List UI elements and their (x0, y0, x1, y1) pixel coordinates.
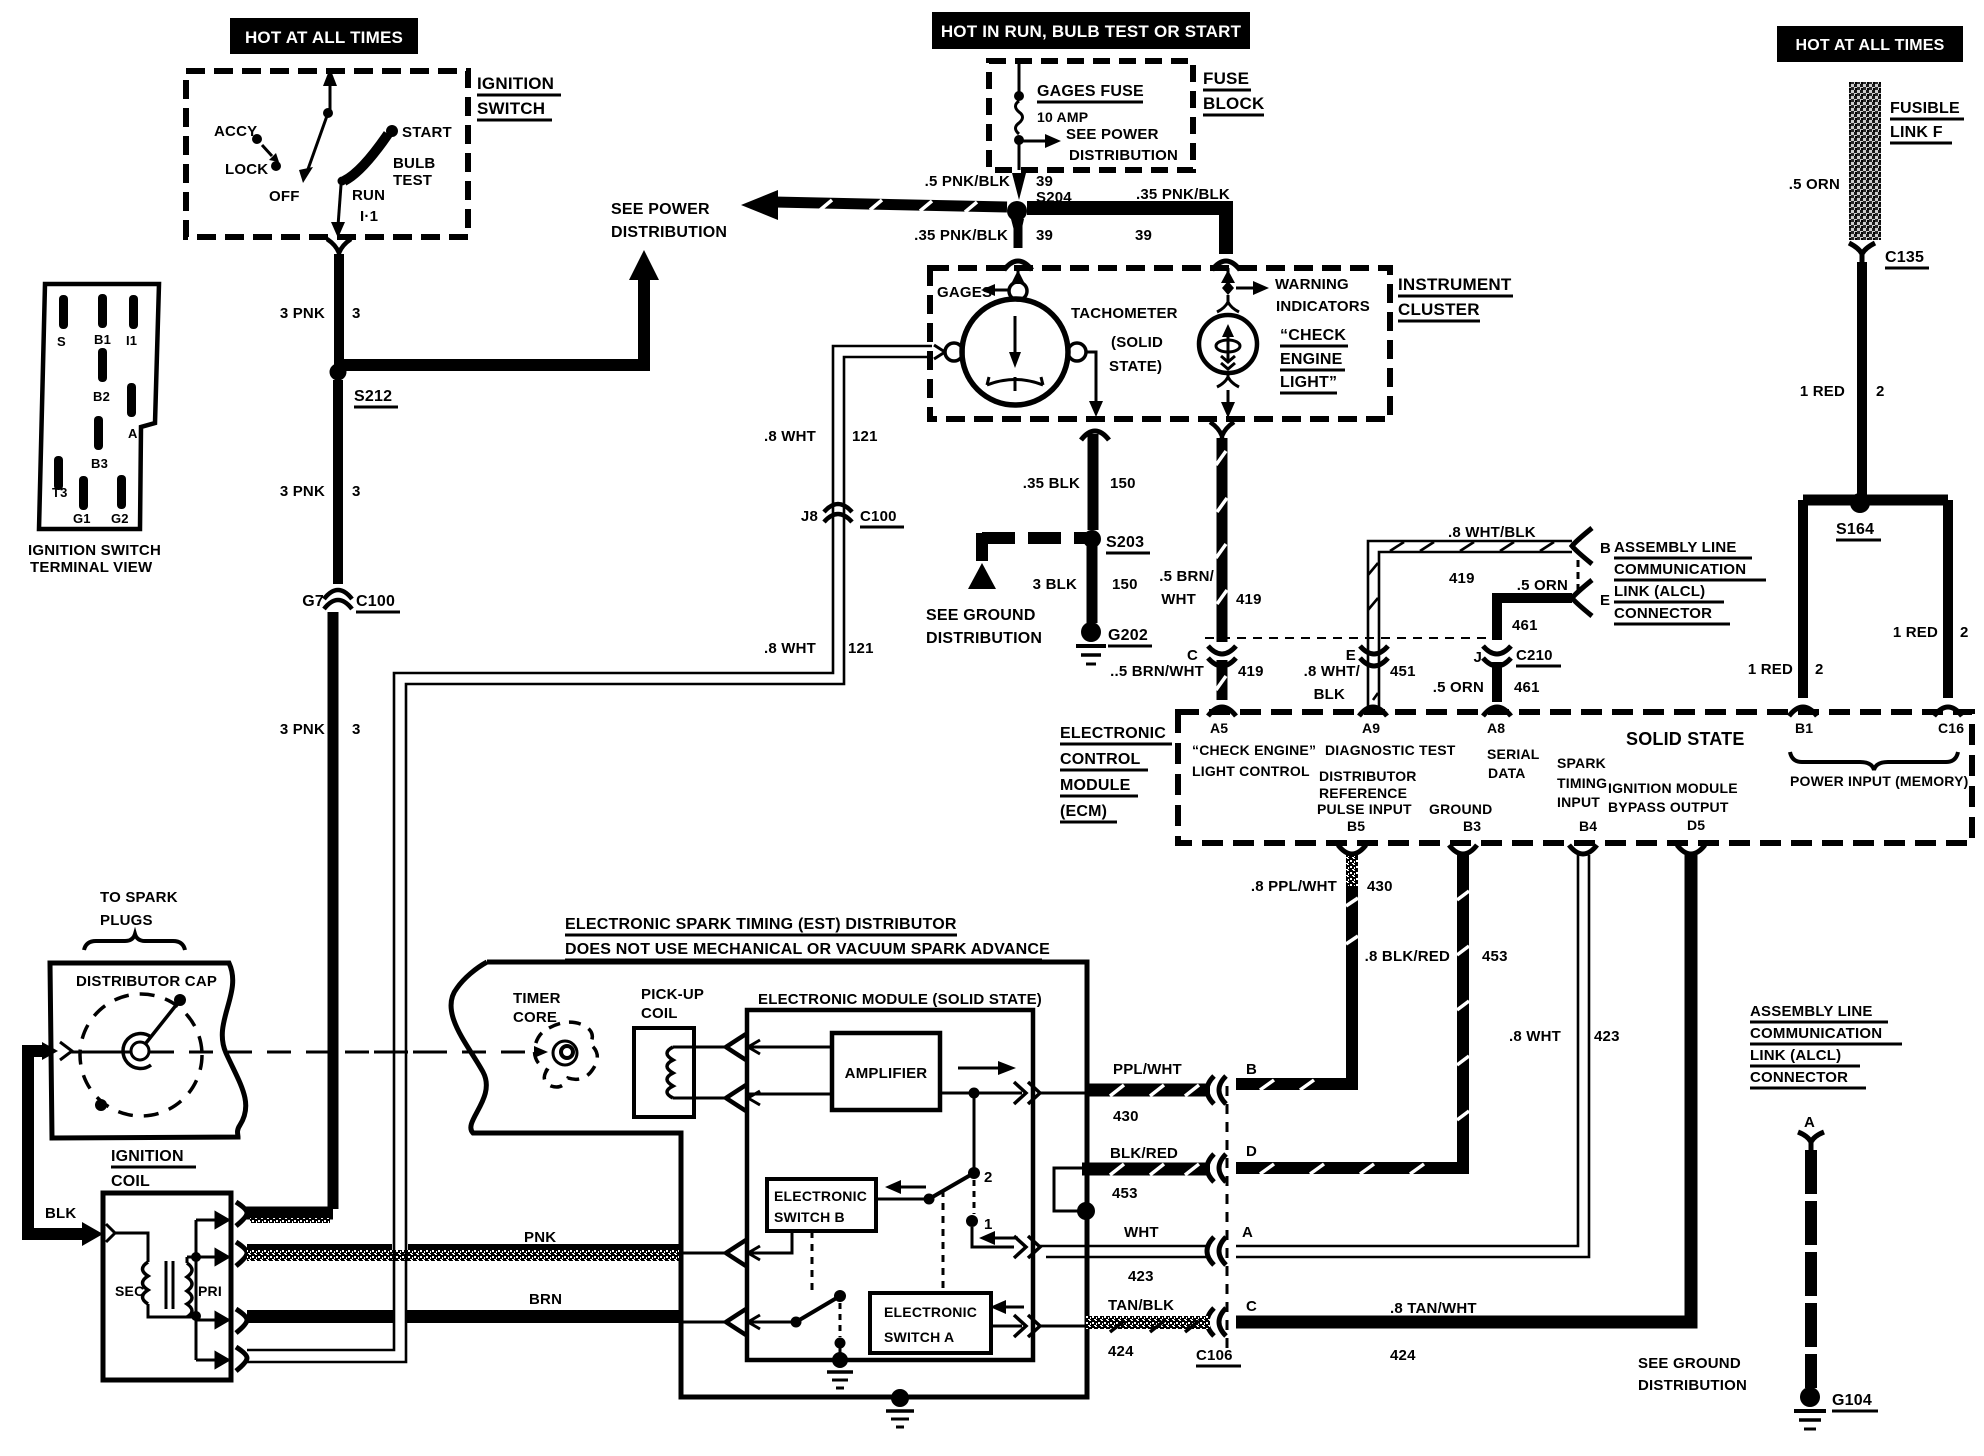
svg-text:.8 BLK/RED: .8 BLK/RED (1365, 948, 1450, 965)
svg-text:423: 423 (1594, 1028, 1620, 1045)
connector C210 pin C (1187, 646, 1236, 666)
wire WHT 423 module to connector A (1040, 1224, 1210, 1285)
svg-text:B: B (1246, 1061, 1257, 1078)
svg-text:C100: C100 (356, 593, 395, 610)
distributor cap (50, 963, 246, 1138)
module output arrows (EST bypass WHT) (1014, 1236, 1040, 1258)
wire 1 RED 2 C135 to S164 (1800, 262, 1885, 498)
svg-text:I1: I1 (126, 333, 137, 348)
svg-text:121: 121 (848, 640, 874, 657)
connector C106 pin D (1207, 1143, 1257, 1182)
connector B (ALCL) (1572, 528, 1611, 564)
svg-text:DISTRIBUTION: DISTRIBUTION (611, 224, 727, 241)
svg-text:WHT: WHT (1161, 591, 1196, 608)
to spark plugs label (84, 889, 185, 950)
svg-text:SEE GROUND: SEE GROUND (1638, 1355, 1741, 1372)
ground at EST housing bottom (886, 1389, 914, 1427)
svg-text:423: 423 (1128, 1268, 1154, 1285)
svg-text:.35 PNK/BLK: .35 PNK/BLK (1136, 186, 1230, 203)
svg-text:HOT AT ALL TIMES: HOT AT ALL TIMES (1796, 37, 1945, 54)
wire arrow to SEE POWER DISTRIBUTION (left) (741, 190, 1007, 220)
inline connector C106 dashed line (1226, 1086, 1229, 1352)
tachometer (934, 268, 1178, 417)
svg-text:B3: B3 (1463, 818, 1481, 834)
ECM box (1060, 712, 1972, 843)
svg-text:S212: S212 (354, 388, 392, 405)
wire .5 BRN/WHT 419 (hatched) cluster to C210 (1159, 438, 1261, 642)
svg-text:B1: B1 (1795, 720, 1813, 736)
svg-text:E: E (1600, 592, 1610, 609)
svg-text:.8 WHT/: .8 WHT/ (1304, 663, 1361, 680)
svg-text:D5: D5 (1687, 817, 1705, 833)
gages fuse (1014, 64, 1178, 170)
svg-text:419: 419 (1449, 570, 1475, 587)
svg-text:CONNECTOR: CONNECTOR (1750, 1069, 1848, 1086)
coil input chevron (106, 1224, 115, 1242)
svg-text:.8 TAN/WHT: .8 TAN/WHT (1390, 1300, 1477, 1317)
wire .5 PNK/BLK fuse to S204 (925, 173, 1073, 206)
svg-text:GAGES: GAGES (937, 284, 992, 301)
svg-text:SERIAL: SERIAL (1487, 746, 1540, 762)
inline connector C210 line (1205, 637, 1492, 639)
svg-text:419: 419 (1238, 663, 1264, 680)
connector ECM B4 (1569, 845, 1597, 854)
switch A contact (747, 1290, 846, 1358)
splice S212 (330, 364, 399, 408)
wire PPL/WHT 430 module to connector B (1040, 1061, 1210, 1125)
svg-text:TO SPARK: TO SPARK (100, 889, 178, 906)
svg-text:.8 PPL/WHT: .8 PPL/WHT (1251, 878, 1337, 895)
coil terminal connectors (236, 1202, 247, 1371)
svg-text:.35 PNK/BLK: .35 PNK/BLK (914, 227, 1008, 244)
svg-text:DISTRIBUTOR CAP: DISTRIBUTOR CAP (76, 973, 217, 990)
svg-text:1 RED: 1 RED (1800, 383, 1845, 400)
svg-text:430: 430 (1113, 1108, 1139, 1125)
svg-text:SEC: SEC (115, 1283, 144, 1299)
svg-text:PPL/WHT: PPL/WHT (1113, 1061, 1182, 1078)
svg-text:PICK-UP: PICK-UP (641, 986, 704, 1003)
svg-text:C: C (1246, 1298, 1257, 1315)
svg-text:INPUT: INPUT (1557, 794, 1600, 810)
connector C106 pin B (1207, 1061, 1257, 1104)
svg-text:.8 WHT/BLK: .8 WHT/BLK (1448, 524, 1536, 541)
splice S203 (1083, 530, 1150, 553)
connector below ignition switch (327, 239, 351, 261)
coil terminal arrows (196, 1213, 228, 1367)
svg-text:COMMUNICATION: COMMUNICATION (1614, 561, 1746, 578)
splice S204 (1007, 201, 1027, 221)
svg-text:T3: T3 (52, 485, 68, 500)
electronic switch B (767, 1179, 876, 1231)
ECM pin labels (1192, 720, 1968, 834)
svg-text:S164: S164 (1836, 521, 1874, 538)
svg-text:DISTRIBUTOR: DISTRIBUTOR (1319, 768, 1417, 784)
ground G104 (1794, 1387, 1878, 1429)
svg-text:HOT AT ALL TIMES: HOT AT ALL TIMES (245, 28, 403, 47)
connector ECM B3 (1449, 845, 1477, 854)
wire .8 WHT/BLK labels near E (1304, 646, 1416, 703)
wire .5 ORN 461 ALCL E to C210 (1497, 577, 1572, 640)
svg-text:.8 WHT: .8 WHT (764, 428, 816, 445)
connector A (ALCL bottom) (1798, 1132, 1824, 1152)
switch contact 2 (876, 1098, 993, 1205)
dashed wire ALCL A to G104 (1805, 1150, 1817, 1388)
mechanical link dashed line over wire crossing (374, 1051, 432, 1054)
svg-text:DISTRIBUTION: DISTRIBUTION (1638, 1377, 1747, 1394)
svg-text:LINK (ALCL): LINK (ALCL) (1614, 583, 1705, 600)
svg-text:TAN/BLK: TAN/BLK (1108, 1297, 1174, 1314)
svg-text:SEE POWER: SEE POWER (611, 201, 710, 218)
svg-text:3 PNK: 3 PNK (280, 721, 325, 738)
wire 3 PNK ignition switch to S212 (280, 254, 361, 366)
svg-text:CORE: CORE (513, 1009, 557, 1026)
splice S164 (1803, 493, 1948, 540)
svg-text:C106: C106 (1196, 1347, 1233, 1364)
electronic module box (747, 991, 1042, 1360)
svg-text:BLK: BLK (45, 1205, 76, 1222)
svg-text:C100: C100 (860, 508, 897, 525)
svg-text:1 RED: 1 RED (1748, 661, 1793, 678)
svg-text:COIL: COIL (111, 1173, 150, 1190)
svg-text:BYPASS OUTPUT: BYPASS OUTPUT (1608, 799, 1729, 815)
svg-text:GAGES FUSE: GAGES FUSE (1037, 83, 1144, 100)
svg-text:A: A (128, 426, 138, 441)
svg-text:.35 BLK: .35 BLK (1023, 475, 1080, 492)
svg-text:SWITCH B: SWITCH B (774, 1209, 845, 1225)
svg-text:3 PNK: 3 PNK (280, 483, 325, 500)
svg-text:430: 430 (1367, 878, 1393, 895)
wire .35 PNK/BLK S204 to warning indicators (1027, 186, 1233, 254)
module output arrows (TAN/BLK) (1014, 1315, 1040, 1337)
svg-text:ASSEMBLY LINE: ASSEMBLY LINE (1614, 539, 1737, 556)
power label HOT IN RUN, BULB TEST OR START (932, 12, 1250, 49)
svg-text:SEE GROUND: SEE GROUND (926, 607, 1036, 624)
svg-text:1 RED: 1 RED (1893, 624, 1938, 641)
svg-text:WHT: WHT (1124, 1224, 1159, 1241)
svg-text:G7: G7 (302, 593, 324, 610)
svg-text:SPARK: SPARK (1557, 755, 1606, 771)
svg-text:BLK: BLK (1314, 686, 1345, 703)
svg-text:PNK: PNK (524, 1229, 556, 1246)
svg-text:3: 3 (352, 305, 361, 322)
svg-text:ELECTRONIC: ELECTRONIC (774, 1188, 867, 1204)
svg-text:1: 1 (984, 1216, 993, 1233)
dashed control line switch A (942, 1190, 945, 1292)
svg-text:IGNITION SWITCH: IGNITION SWITCH (28, 542, 161, 559)
wire 3 PNK C100 down to ignition coil (246, 612, 361, 1223)
dashed link B to E (1577, 560, 1580, 590)
svg-text:B4: B4 (1579, 818, 1597, 834)
svg-text:3 PNK: 3 PNK (280, 305, 325, 322)
wire .5 ORN 461 C210 to ECM A8 (1433, 662, 1540, 702)
svg-text:GROUND: GROUND (1429, 801, 1492, 817)
connector C106 pin C (1196, 1298, 1257, 1366)
svg-text:CONNECTOR: CONNECTOR (1614, 605, 1712, 622)
switch contact 1 (966, 1180, 1018, 1247)
svg-text:I·1: I·1 (360, 208, 378, 225)
svg-text:SWITCH: SWITCH (477, 99, 545, 118)
svg-text:39: 39 (1036, 173, 1053, 190)
svg-text:PRI: PRI (198, 1283, 222, 1299)
resistor stub and BLK/RED 453 wire (1054, 1145, 1210, 1220)
svg-text:DOES NOT USE MECHANICAL OR VAC: DOES NOT USE MECHANICAL OR VACUUM SPARK … (565, 941, 1050, 958)
ALCL label (top) (1614, 539, 1766, 624)
wire .8 BLK/RED 453 ECM B3 to connector D (1236, 855, 1508, 1174)
svg-text:2: 2 (1960, 624, 1969, 641)
svg-text:START: START (402, 124, 452, 141)
svg-text:461: 461 (1512, 617, 1538, 634)
svg-text:453: 453 (1482, 948, 1508, 965)
svg-text:LOCK: LOCK (225, 161, 268, 178)
svg-text:IGNITION MODULE: IGNITION MODULE (1608, 780, 1738, 796)
timer core (513, 990, 597, 1087)
svg-text:2: 2 (1876, 383, 1885, 400)
svg-text:.5 ORN: .5 ORN (1789, 176, 1840, 193)
svg-text:B2: B2 (93, 389, 110, 404)
wire 1 RED 2 to ECM B1 (1748, 500, 1824, 698)
connector ECM B5 (1338, 845, 1366, 854)
ALCL label (bottom right) (1750, 1003, 1902, 1131)
fuse block box (989, 61, 1265, 170)
svg-text:424: 424 (1390, 1347, 1416, 1364)
svg-text:.5 BRN/: .5 BRN/ (1159, 568, 1214, 585)
wire S212 branch to SEE POWER DISTRIBUTION (344, 201, 727, 365)
svg-text:BLOCK: BLOCK (1203, 94, 1265, 113)
svg-text:INDICATORS: INDICATORS (1276, 298, 1370, 315)
svg-text:BLK/RED: BLK/RED (1110, 1145, 1178, 1162)
svg-text:2: 2 (1815, 661, 1824, 678)
svg-text:SOLID STATE: SOLID STATE (1626, 729, 1745, 749)
svg-text:G104: G104 (1832, 1392, 1872, 1409)
svg-text:.5 ORN: .5 ORN (1433, 679, 1484, 696)
svg-text:TACHOMETER: TACHOMETER (1071, 305, 1178, 322)
svg-text:TERMINAL VIEW: TERMINAL VIEW (30, 559, 153, 576)
svg-text:FUSIBLE: FUSIBLE (1890, 100, 1960, 117)
dashed control line switch B (811, 1231, 814, 1292)
svg-text:451: 451 (1390, 663, 1416, 680)
connector E (ALCL) (1572, 580, 1610, 616)
svg-text:461: 461 (1514, 679, 1540, 696)
connector C100 (J8) (801, 504, 904, 527)
wire .8 WHT/BLK 451 ALCL B to ECM A9 (1368, 524, 1572, 712)
svg-text:(ECM): (ECM) (1060, 803, 1107, 820)
svg-text:419: 419 (1236, 591, 1262, 608)
svg-text:POWER INPUT (MEMORY): POWER INPUT (MEMORY) (1790, 773, 1968, 789)
wire .35 BLK 150 (1023, 434, 1136, 530)
instrument cluster box (930, 268, 1513, 419)
svg-text:3 BLK: 3 BLK (1033, 576, 1077, 593)
svg-text:CONTROL: CONTROL (1060, 751, 1141, 768)
module output arrows (EST reference) (1014, 1082, 1040, 1104)
svg-text:.8 WHT: .8 WHT (764, 640, 816, 657)
svg-text:453: 453 (1112, 1185, 1138, 1202)
svg-text:DIAGNOSTIC TEST: DIAGNOSTIC TEST (1325, 742, 1456, 758)
svg-text:ACCY: ACCY (214, 123, 257, 140)
wire BLK distributor cap to coil (28, 1042, 103, 1246)
svg-text:3: 3 (352, 483, 361, 500)
wire .8 WHT 121 tachometer to coil (247, 346, 932, 1362)
see ground distribution (bottom right) (1638, 1355, 1747, 1394)
svg-text:TIMING: TIMING (1557, 775, 1607, 791)
svg-text:S203: S203 (1106, 534, 1144, 551)
ignition switch contacts (214, 68, 452, 238)
svg-text:A8: A8 (1487, 720, 1505, 736)
svg-text:G202: G202 (1108, 627, 1148, 644)
wire 1 RED 2 to ECM C16 (1893, 500, 1969, 698)
ground at module bottom (827, 1352, 853, 1388)
svg-text:DISTRIBUTION: DISTRIBUTION (926, 630, 1042, 647)
svg-text:C16: C16 (1938, 720, 1964, 736)
svg-text:DATA: DATA (1488, 765, 1526, 781)
svg-text:STATE): STATE) (1109, 358, 1162, 375)
svg-text:A: A (1804, 1114, 1815, 1131)
svg-text:E: E (1346, 647, 1356, 664)
wire .5 BRN/WHT 419 C210 to ECM A5 (1110, 660, 1264, 700)
svg-text:PLUGS: PLUGS (100, 912, 153, 929)
svg-text:“CHECK ENGINE”: “CHECK ENGINE” (1192, 742, 1316, 758)
svg-text:IGNITION: IGNITION (477, 74, 554, 93)
coil windings SEC PRI (115, 1220, 222, 1360)
svg-text:J8: J8 (801, 508, 818, 525)
ignition coil box (103, 1193, 231, 1380)
svg-text:DISTRIBUTION: DISTRIBUTION (1069, 147, 1178, 164)
svg-text:.8 WHT: .8 WHT (1509, 1028, 1561, 1045)
svg-text:COIL: COIL (641, 1005, 678, 1022)
svg-text:G1: G1 (73, 511, 91, 526)
svg-text:(SOLID: (SOLID (1111, 334, 1163, 351)
svg-text:ENGINE: ENGINE (1280, 351, 1343, 368)
svg-text:C: C (1187, 647, 1198, 664)
svg-text:A5: A5 (1210, 720, 1228, 736)
wire TAN/BLK 424 module to connector C (1040, 1297, 1210, 1360)
wire .35 PNK/BLK S204 to gages (914, 219, 1053, 248)
svg-text:“CHECK: “CHECK (1280, 327, 1346, 344)
ignition coil label (111, 1148, 196, 1192)
ignition switch box (186, 71, 561, 237)
svg-text:J: J (1473, 649, 1482, 666)
svg-text:WARNING: WARNING (1275, 276, 1349, 293)
connector below cluster (tach ground) (1081, 431, 1109, 440)
svg-text:LINK (ALCL): LINK (ALCL) (1750, 1047, 1841, 1064)
connector C100 (G7) (302, 590, 400, 612)
svg-text:150: 150 (1112, 576, 1138, 593)
svg-text:COMMUNICATION: COMMUNICATION (1750, 1025, 1882, 1042)
svg-text:RUN: RUN (352, 187, 385, 204)
wire .8 PPL/WHT 430 ECM B5 to connector B (1236, 855, 1393, 1090)
svg-text:B1: B1 (94, 332, 111, 347)
svg-text:39: 39 (1135, 227, 1152, 244)
svg-text:3: 3 (352, 721, 361, 738)
svg-text:ELECTRONIC: ELECTRONIC (884, 1304, 977, 1320)
svg-text:TEST: TEST (393, 172, 432, 189)
EST distributor housing outline (451, 962, 1087, 1397)
svg-text:A9: A9 (1362, 720, 1380, 736)
svg-text:..5 BRN/WHT: ..5 BRN/WHT (1110, 663, 1204, 680)
svg-text:.5 ORN: .5 ORN (1517, 577, 1568, 594)
svg-text:INSTRUMENT: INSTRUMENT (1398, 275, 1512, 294)
svg-text:SWITCH A: SWITCH A (884, 1329, 954, 1345)
connector C106 pin A (1207, 1224, 1253, 1265)
svg-text:PULSE INPUT: PULSE INPUT (1317, 801, 1412, 817)
svg-text:MODULE: MODULE (1060, 777, 1131, 794)
svg-text:HOT IN RUN, BULB TEST OR START: HOT IN RUN, BULB TEST OR START (941, 22, 1242, 41)
check engine light (1199, 268, 1370, 418)
connector at cluster top (warning) (1212, 261, 1240, 270)
EST distributor title (565, 916, 1050, 960)
power label HOT AT ALL TIMES (right) (1777, 26, 1963, 62)
svg-text:A: A (1242, 1224, 1253, 1241)
power label HOT AT ALL TIMES (left) (230, 18, 418, 54)
connector at ECM A9 (1359, 707, 1387, 716)
svg-text:10 AMP: 10 AMP (1037, 109, 1088, 125)
electronic switch A (870, 1293, 1024, 1353)
svg-text:121: 121 (852, 428, 878, 445)
ground G202 (1076, 622, 1152, 664)
svg-text:ASSEMBLY LINE: ASSEMBLY LINE (1750, 1003, 1873, 1020)
svg-text:LINK F: LINK F (1890, 124, 1943, 141)
svg-text:LIGHT”: LIGHT” (1280, 374, 1337, 391)
connector C210 pin J (1473, 646, 1561, 666)
svg-text:OFF: OFF (269, 188, 300, 205)
svg-text:C135: C135 (1885, 249, 1924, 266)
wire S203 to ground distribution (dashed) (926, 533, 1086, 647)
svg-text:39: 39 (1036, 227, 1053, 244)
svg-text:REFERENCE: REFERENCE (1319, 785, 1407, 801)
pick-up coil (634, 986, 760, 1117)
svg-text:FUSE: FUSE (1203, 69, 1249, 88)
svg-text:D: D (1246, 1143, 1257, 1160)
svg-text:BULB: BULB (393, 155, 435, 172)
fusible link F (1789, 82, 1964, 240)
svg-text:ELECTRONIC MODULE (SOLID STATE: ELECTRONIC MODULE (SOLID STATE) (758, 991, 1042, 1008)
svg-text:BRN: BRN (529, 1291, 562, 1308)
wire 3 BLK 150 to G202 (1033, 546, 1138, 623)
svg-text:SEE POWER: SEE POWER (1066, 126, 1159, 143)
BRN input to switch A (681, 1309, 760, 1335)
svg-text:S: S (57, 334, 66, 349)
ignition switch terminal view connector (28, 284, 161, 576)
wire BRN coil to module (247, 1291, 679, 1323)
svg-text:IGNITION: IGNITION (111, 1148, 184, 1165)
svg-text:B5: B5 (1347, 818, 1365, 834)
svg-text:LIGHT CONTROL: LIGHT CONTROL (1192, 763, 1310, 779)
svg-text:TIMER: TIMER (513, 990, 561, 1007)
amplifier (747, 1033, 1022, 1110)
wire 3 PNK S212 to C100 (280, 380, 361, 584)
svg-text:424: 424 (1108, 1343, 1134, 1360)
wire .8 TAN/WHT 424 ECM D5 to connector C (1236, 855, 1691, 1364)
svg-text:C210: C210 (1516, 647, 1553, 664)
connector ECM D5 (1677, 845, 1705, 854)
svg-text:2: 2 (984, 1169, 993, 1186)
connector at cluster top (gages) (1004, 261, 1032, 270)
svg-text:ELECTRONIC SPARK TIMING (EST): ELECTRONIC SPARK TIMING (EST) DISTRIBUTO… (565, 916, 957, 933)
connector below cluster (check engine) (1210, 422, 1234, 444)
mechanical link dashed line (150, 1046, 548, 1058)
connector C135 (1849, 243, 1929, 268)
svg-text:150: 150 (1110, 475, 1136, 492)
svg-text:B3: B3 (91, 456, 108, 471)
svg-text:ELECTRONIC: ELECTRONIC (1060, 725, 1166, 742)
wire .8 WHT 423 ECM B4 to connector A (1236, 855, 1620, 1257)
switch A output to module edge (991, 1325, 1022, 1328)
PNK input to switch B (681, 1231, 792, 1266)
svg-text:G2: G2 (111, 511, 129, 526)
svg-text:AMPLIFIER: AMPLIFIER (845, 1065, 928, 1082)
wire PNK coil to module (247, 1229, 679, 1261)
svg-text:.5 PNK/BLK: .5 PNK/BLK (925, 173, 1010, 190)
svg-text:CLUSTER: CLUSTER (1398, 300, 1480, 319)
